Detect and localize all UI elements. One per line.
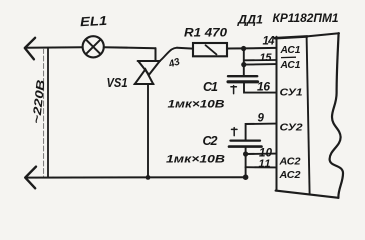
wire triac cathode down xyxy=(147,84,149,177)
wire top horizontal from arrow to lamp xyxy=(26,46,83,49)
svg-text:1мк×10В: 1мк×10В xyxy=(168,99,225,111)
node junction dot pin15 xyxy=(241,62,246,67)
lamp EL1 xyxy=(83,36,104,57)
svg-text:СУ1: СУ1 xyxy=(280,86,303,98)
node junction dot pin10 xyxy=(243,151,248,156)
svg-text:15: 15 xyxy=(260,52,273,64)
node A vertical branch (double scan line) xyxy=(47,48,49,178)
wire IC right torn edge xyxy=(330,33,343,198)
capacitor C2 xyxy=(231,139,261,141)
wire C2 to pin10 vertical xyxy=(245,147,247,178)
resistor R1 xyxy=(193,43,227,56)
svg-text:C2: C2 xyxy=(203,134,218,148)
svg-text:КР1182ПМ1: КР1182ПМ1 xyxy=(273,11,339,25)
arrow left top xyxy=(25,38,35,60)
svg-text:1мк×10В: 1мк×10В xyxy=(166,154,225,166)
svg-text:R1 470: R1 470 xyxy=(184,25,227,39)
wire pin 14 xyxy=(244,47,277,50)
op-amp U1 : IC DD1 box xyxy=(276,37,278,191)
svg-text:ДД1: ДД1 xyxy=(237,12,263,26)
svg-text:EL1: EL1 xyxy=(80,13,108,29)
node junction dot bottom xyxy=(243,174,249,180)
wire pin 15 doubled xyxy=(245,59,277,61)
svg-text:АС2: АС2 xyxy=(278,156,300,168)
svg-text:16: 16 xyxy=(257,79,270,93)
wire R1 to node xyxy=(227,47,244,49)
polarity + of C2 xyxy=(232,128,238,136)
wire lamp to corner xyxy=(104,47,156,48)
svg-text:11: 11 xyxy=(259,158,271,170)
svg-text:VS1: VS1 xyxy=(107,75,128,90)
node junction dot triac-bottom xyxy=(146,175,151,180)
svg-text:АС1: АС1 xyxy=(280,59,301,71)
svg-text:9: 9 xyxy=(258,112,265,124)
wire gate curve of VS1 xyxy=(160,48,177,61)
svg-text:14: 14 xyxy=(263,36,276,48)
svg-text:АС1: АС1 xyxy=(280,44,301,56)
node junction dot R1/pin14 xyxy=(241,46,246,51)
triac VS1 xyxy=(135,61,160,84)
svg-text:АС2: АС2 xyxy=(278,169,300,181)
svg-text:СУ2: СУ2 xyxy=(280,121,303,133)
arrow left bottom xyxy=(25,167,36,189)
wire corner drop to triac xyxy=(155,48,157,61)
wire pin 11 xyxy=(246,166,277,168)
capacitor C1 xyxy=(228,75,257,77)
wire C1 to pin 16 xyxy=(244,82,276,93)
svg-text:C1: C1 xyxy=(203,80,218,94)
wire bottom horizontal xyxy=(26,176,245,178)
polarity + of C1 xyxy=(231,86,237,94)
wire gate to R1 xyxy=(177,47,193,50)
wire pin 10 xyxy=(246,153,277,155)
wire pin 9 xyxy=(246,124,277,140)
wire vertical node to C1 xyxy=(243,49,245,77)
